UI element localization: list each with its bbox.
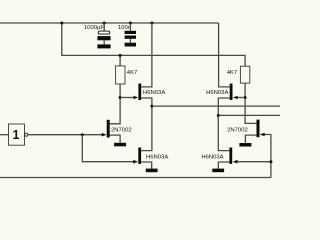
svg-text:100n: 100n [118,25,131,31]
wire right stage drain from top bus corner down to Q2 [219,23,230,87]
svg-text:4K7: 4K7 [127,70,137,76]
svg-text:1000µF: 1000µF [84,25,104,31]
svg-text:H6N03A: H6N03A [146,155,168,161]
svg-text:4K7: 4K7 [227,70,237,76]
svg-text:H6N03A: H6N03A [206,90,228,96]
transistor Q5 H6N03A lower-left channel bar [138,148,141,164]
node junction top bus cap C2 [129,22,132,25]
ground below Q6 [212,169,224,173]
node junction top bus cap C1 [103,22,106,25]
input box 1 [9,124,25,145]
wire input to Q3 gate [28,134,102,136]
node G2 junction [244,96,247,99]
ground below Q3 [114,143,126,147]
resistor R1 4K7 left body [116,66,125,84]
wire cap C1 bottom lead [103,40,105,44]
node junction output A [150,105,153,108]
wire cap C2 top lead [129,23,131,31]
capacitor C2 plate 1 [125,31,136,34]
arrow gate Q6 [233,160,238,164]
svg-text:2N7002: 2N7002 [227,128,248,134]
svg-text:H6N03A: H6N03A [201,155,223,161]
wire Q1 source down to Q5 drain [141,98,152,151]
resistor R2 4K7 right body [240,66,249,83]
transistor Q6 H6N03A lower-right channel bar [229,148,232,164]
capacitor C2 plate 2 [125,36,136,39]
arrow gate Q1 [134,96,139,99]
node junction top bus x61.8 [60,22,63,25]
wire gate line Q1 [120,97,134,99]
wire Q4 source to ground [245,135,256,143]
wire cap C1 top lead [103,23,105,31]
capacitor C1 negative plate [97,36,110,40]
svg-text:H6N03A: H6N03A [143,90,165,96]
transistor Q2 H6N03A mid-right channel bar [230,84,233,101]
node junction mid bus left 4K7 [119,54,122,57]
svg-text:2N7002: 2N7002 [111,128,132,134]
transistor Q4 2N7002 right channel bar [257,120,260,138]
wire Q5 source to ground [141,162,152,169]
wire gate line Q2 [238,97,246,99]
wire Q2 source down to Q6 drain [218,98,229,151]
node junction output B [217,114,220,117]
wire R2 bottom through node G2 down to Q4 drain jog [245,83,256,123]
wire output B to right edge [218,114,280,116]
wire input from left edge to box [0,134,9,136]
wire left 4K7 top lead from mid bus [119,55,121,66]
wire R1 bottom through node G1 down to Q3 drain jog [110,84,121,124]
ground below Q4 [239,143,251,147]
wire output A to right edge [152,105,280,107]
node G1 junction [119,96,122,99]
wire cap C2 bottom lead [129,39,131,43]
transistor Q1 H6N03A mid-left channel bar [138,84,141,101]
capacitor C1 positive plate (hollow) [98,31,110,34]
arrow gate Q2 [233,96,238,99]
ground below C2 [125,43,136,47]
arrow gate Q5 [133,160,138,164]
node junction top bus drain Q1 [150,22,153,25]
wire top supply bus [0,22,219,24]
wire Q1 drain to top bus [141,23,152,87]
node junction input split [81,133,84,136]
wire input down and over to Q5 gate [82,135,133,162]
arrow gate Q4 [260,133,265,137]
svg-text:1: 1 [13,128,20,142]
wire Q4 gate to right riser [265,135,271,178]
wire bottom bus [0,177,271,179]
wire Q6 source to ground [218,162,229,169]
node junction gate riser [269,160,272,163]
arrow gate Q3 [102,133,107,137]
input box pin circle [25,133,28,136]
ground below C1 [97,44,110,48]
ground below Q5 [146,169,158,173]
transistor Q3 2N7002 left channel bar [107,120,110,138]
wire mid bus from top bus down at x61.8 across to right resistor [62,23,245,66]
wire Q3 source to ground [110,135,120,143]
wire Q6 gate line to riser [238,161,271,163]
